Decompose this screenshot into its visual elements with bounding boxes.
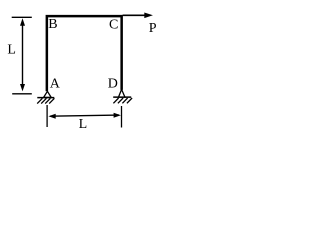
vertical dimension: shaft: [22, 22, 24, 86]
svg-text:A: A: [50, 76, 61, 91]
pin support at A: hatching: [37, 98, 54, 103]
pin support at D: triangle: [119, 89, 125, 97]
vertical dimension: bottom tick: [12, 93, 32, 95]
load arrow P head: [144, 13, 153, 19]
pin support at A: ground line: [37, 97, 54, 99]
horizontal dimension: shaft: [50, 115, 119, 116]
pin support at D: hatching: [113, 98, 132, 103]
vertical dimension: top tick: [12, 16, 32, 18]
svg-text:P: P: [149, 21, 157, 36]
vertical dimension: down arrowhead: [20, 84, 25, 91]
svg-text:L: L: [7, 43, 16, 58]
pin support at D: ground line: [113, 96, 131, 98]
frame members: column AB, beam BC, column DC: [47, 16, 122, 91]
horizontal dimension: right extension line: [121, 106, 123, 128]
vertical dimension: up arrowhead: [20, 18, 25, 25]
svg-text:D: D: [108, 77, 118, 92]
svg-text:C: C: [109, 17, 118, 32]
svg-text:L: L: [79, 117, 88, 132]
pin support at A: triangle: [44, 91, 52, 97]
horizontal dimension: left extension line: [46, 105, 48, 127]
load arrow P shaft: [123, 14, 146, 16]
horizontal dimension: left arrowhead: [48, 114, 55, 119]
horizontal dimension: right arrowhead: [114, 113, 121, 118]
svg-text:B: B: [48, 17, 57, 32]
